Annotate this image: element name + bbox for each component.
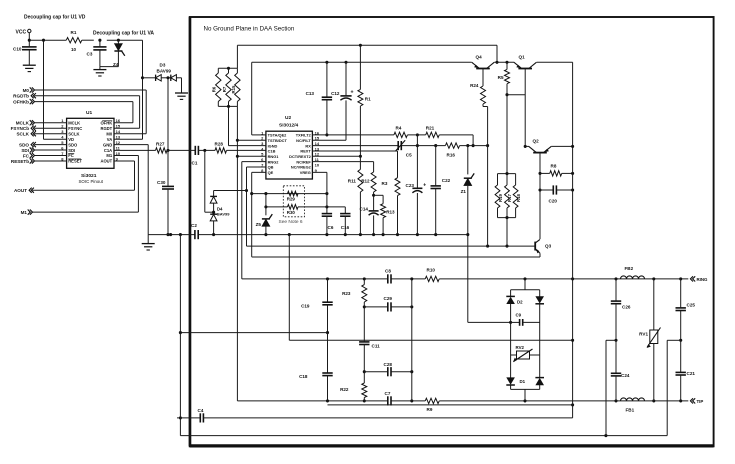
capacitor C25 [676,279,696,342]
wire Q3 base row [247,146,536,248]
wire RX row [312,144,489,147]
wire QB drop [245,167,266,246]
wire ground rail [148,233,468,236]
wire RGDTb to pin15 [114,96,140,129]
capacitor C18 [299,333,333,401]
wire R5 to Q1 base [505,69,526,148]
capacitor C3 [87,40,107,66]
wire VREG pin [312,171,327,173]
wire tap row [179,331,328,334]
svg-text:BAV99: BAV99 [217,211,230,216]
svg-text:C14: C14 [360,207,369,212]
svg-text:SCLK: SCLK [68,131,79,136]
svg-text:C7: C7 [385,391,391,396]
op-amp U1 Si3021 [61,110,121,184]
svg-text:C1A: C1A [104,148,112,153]
svg-text:VCC: VCC [16,29,27,35]
svg-text:R4: R4 [396,126,402,131]
capacitor C4 [177,408,573,423]
diode D2 [506,296,544,305]
svg-text:R11: R11 [348,179,357,184]
svg-text:MCLK: MCLK [68,121,80,126]
svg-text:RX: RX [305,143,311,148]
ground [175,78,188,100]
svg-text:C3: C3 [87,52,93,57]
svg-text:C1B: C1B [268,149,276,154]
svg-text:RNG1: RNG1 [268,154,280,159]
resistor R13 [374,195,395,234]
svg-text:R1: R1 [365,97,371,102]
svg-text:C19: C19 [301,304,310,309]
svg-text:16: 16 [116,118,121,123]
svg-text:See Note 6: See Note 6 [279,219,303,225]
wire AOUT to pin9 [114,161,135,190]
svg-text:Q2: Q2 [533,139,540,144]
wire QE drop [250,172,266,257]
wire VA to U1 pin13 [114,40,144,139]
svg-text:M0: M0 [106,131,112,136]
svg-text:NC/VREG2: NC/VREG2 [291,165,312,170]
svg-text:C10: C10 [13,47,22,52]
wire bridge left column [510,290,512,390]
resistor R23 [342,279,367,309]
svg-text:Q3: Q3 [545,244,552,249]
svg-text:R3: R3 [382,181,388,186]
capacitor C21 [676,340,696,401]
capacitor C5 [395,140,412,157]
wire D3 mid to C1A row [166,76,169,152]
capacitor C10 [13,40,37,65]
capacitor C26 [611,279,631,342]
node AOUT [14,188,135,194]
svg-text:C13: C13 [306,91,315,96]
transistor Q2 [525,139,572,153]
node FSYNCb [11,126,67,131]
svg-text:M1: M1 [21,210,28,215]
varistor RV2 [511,345,540,362]
resistor R3 [312,151,400,235]
resistor R22 [340,372,367,403]
svg-text:FC: FC [68,153,74,158]
wire C25 mid branch [667,340,681,435]
ferrite bead FB2 [621,266,645,279]
svg-text:QB: QB [268,165,274,170]
resistor R18 [513,174,521,218]
svg-text:SCLK: SCLK [16,132,29,137]
capacitor C29 [384,296,393,312]
ferrite bead FB1 [621,398,645,413]
svg-text:C8: C8 [385,268,391,273]
wire VCC rail [28,39,143,42]
svg-text:U2: U2 [285,115,291,121]
svg-text:FSYNC: FSYNC [68,126,82,131]
wire TX row [312,133,419,136]
wire QE node [252,192,329,195]
svg-text:D1: D1 [520,379,526,384]
svg-text:C20: C20 [549,198,558,203]
svg-text:C11: C11 [372,344,381,349]
svg-text:R16: R16 [447,153,456,158]
svg-text:10: 10 [315,162,320,167]
resistor R6 [212,73,221,102]
wire top rail A [237,44,498,64]
node MCLK [16,120,67,125]
svg-text:RV1: RV1 [639,332,648,337]
svg-text:C5: C5 [406,153,412,158]
transistor Q1 [514,54,536,68]
resistor R27 [114,141,168,153]
capacitor C14 [360,195,379,234]
svg-text:TSTB/DCT: TSTB/DCT [268,138,288,143]
resistor R21 [426,126,473,146]
node RESETb [11,158,67,163]
svg-text:REXT: REXT [300,149,311,154]
svg-text:M0: M0 [23,88,30,93]
wire M0 to pin14 [114,90,146,134]
svg-text:TIP: TIP [697,399,704,404]
capacitor C13 [306,62,333,136]
node M1 [21,210,139,216]
transistor Q3 [252,239,552,257]
svg-text:C18: C18 [299,374,308,379]
svg-text:R13: R13 [386,209,395,214]
resistor R4 [394,126,426,138]
node RING [690,276,708,282]
wire bottom tap row [180,434,667,437]
VCC terminal [16,29,31,40]
svg-text:RGDT: RGDT [100,126,112,131]
svg-text:RESET: RESET [68,159,82,164]
wire RNG2 drop [242,162,266,279]
node SDO [19,142,67,147]
label Decoupling cap for U1 VA [93,30,154,36]
wire row 405 [328,403,575,406]
svg-text:13: 13 [116,135,121,140]
svg-text:NC/REF: NC/REF [296,159,311,164]
svg-text:FB2: FB2 [625,266,634,271]
svg-text:Decoupling cap for U1 VD: Decoupling cap for U1 VD [24,15,86,21]
svg-text:GND: GND [103,142,112,147]
svg-text:D2: D2 [517,300,523,305]
wire TXA row [242,277,689,280]
wire C29-C28 right leg [410,279,413,403]
wire Q1 collector drop [571,62,574,418]
svg-text:C24: C24 [621,373,630,378]
svg-text:R22: R22 [340,387,349,392]
svg-text:C6: C6 [328,225,334,230]
node M0 [23,87,147,93]
svg-text:Decoupling cap for U1 VA: Decoupling cap for U1 VA [93,30,154,36]
wire M1 to pin10 [114,156,138,213]
ground [93,67,106,76]
svg-text:Si3012/4: Si3012/4 [279,123,299,129]
svg-text:R29: R29 [287,197,296,202]
svg-text:C12: C12 [331,91,340,96]
zener Z4 [100,40,125,67]
zener Z5 [256,194,273,235]
resistor R24 [470,69,488,146]
svg-text:SDI: SDI [68,148,75,153]
dotted box [283,186,304,217]
capacitor C6 [322,172,334,234]
svg-text:SDO: SDO [19,142,29,147]
wire trio2 bottom [498,216,516,248]
node TIP [690,398,703,404]
wire TIP rail [237,399,688,402]
resistor R9 [425,398,439,412]
svg-text:Z5: Z5 [256,222,262,227]
capacitor C22 [431,146,451,235]
svg-text:R15: R15 [231,85,236,93]
capacitor C16 [340,207,350,235]
svg-text:M1: M1 [106,153,112,158]
svg-text:R21: R21 [426,126,435,131]
svg-text:+: + [351,90,354,96]
svg-text:C23: C23 [406,183,415,188]
wire rail B to U2 pin1 [252,62,266,135]
capacitor C23 [406,135,427,235]
ground [142,235,155,250]
svg-text:SDI: SDI [21,148,29,153]
resistor R15 [231,68,240,106]
wire C1B tap to D4 mid [205,150,215,213]
svg-text:TXFILT2: TXFILT2 [296,133,312,138]
wire VD to VCC rail [44,40,67,139]
svg-text:U1: U1 [86,110,92,116]
label Decoupling cap for U1 VD [24,15,86,21]
capacitor C20 [540,185,574,203]
resistor R16 [445,143,459,158]
svg-text:DCT/REXT2: DCT/REXT2 [289,154,311,159]
svg-text:C21: C21 [687,371,696,376]
svg-text:R7: R7 [222,86,227,92]
svg-text:FSYNCb: FSYNCb [11,126,30,131]
wire GND pin to ground rail [114,145,148,235]
wire bridge right column [539,290,541,390]
svg-text:RV2: RV2 [516,345,525,350]
svg-text:C25: C25 [687,303,696,308]
svg-text:BAV99: BAV99 [157,68,172,73]
svg-text:FC: FC [23,153,30,158]
svg-text:+: + [423,182,426,188]
svg-text:R30: R30 [287,210,296,215]
zener Z1 [461,146,475,235]
svg-text:Q4: Q4 [476,54,483,59]
capacitor C1 [168,146,215,166]
svg-text:C29: C29 [384,296,393,301]
svg-text:QE: QE [268,170,274,175]
svg-text:C4: C4 [198,408,204,413]
svg-text:Z1: Z1 [461,189,467,194]
svg-text:NC/FILT: NC/FILT [296,138,311,143]
wire bridge top [511,279,540,290]
svg-text:AOUT: AOUT [14,188,27,193]
wire Q2 emitter [538,153,541,239]
svg-text:R8: R8 [551,163,557,168]
wire IGND riser [229,106,266,145]
resistor R11 [348,156,363,234]
capacitor C28 [384,362,393,376]
diode D1 [506,377,544,385]
svg-text:No Ground Plane in DAA Section: No Ground Plane in DAA Section [204,26,295,33]
svg-text:C22: C22 [442,178,451,183]
svg-text:R12: R12 [361,179,370,184]
resistor R5 [498,62,510,94]
svg-text:C30: C30 [157,180,166,185]
svg-text:D3: D3 [160,63,166,68]
op-amp U2 Si3012 [261,115,320,179]
svg-text:VA: VA [107,137,112,142]
wire D4 top row [214,191,247,197]
svg-text:R23: R23 [342,291,351,296]
node FC [23,153,67,158]
svg-text:RING: RING [697,277,709,282]
svg-text:SOIC Pinout: SOIC Pinout [79,179,104,184]
svg-text:VREG: VREG [300,170,311,175]
svg-text:R6: R6 [212,86,217,92]
wire jog to bottom tap [606,340,616,435]
svg-text:C28: C28 [384,362,393,367]
capacitor C24 [611,340,630,401]
svg-text:AOUT: AOUT [100,159,112,164]
resistor R2 [312,45,371,158]
node SDI [21,147,66,152]
svg-text:R1: R1 [71,30,77,35]
svg-text:OFHKb: OFHKb [13,100,29,105]
capacitor C11 [359,307,380,373]
label See Note 6 [279,219,303,225]
svg-text:R27: R27 [156,141,165,146]
wire trio2 top [498,95,516,175]
resistor R28 [215,141,266,153]
wire trio bottom [218,68,237,108]
DAA section box [190,17,714,446]
svg-text:14: 14 [116,129,121,134]
capacitor C2 [191,223,198,239]
wire C29 row [364,305,413,308]
capacitor C8 [385,268,391,283]
diode D3 BAV99 [143,63,182,81]
svg-text:C2: C2 [191,223,197,228]
wire OFHKb to pin16 [114,102,133,123]
svg-text:VD: VD [68,137,74,142]
svg-text:C26: C26 [622,304,631,309]
svg-text:RESETb: RESETb [11,159,29,164]
svg-text:OFHK: OFHK [100,121,112,126]
resistor R8 [540,163,574,176]
resistor R30 [264,205,345,215]
svg-text:Si3021: Si3021 [81,173,97,179]
svg-text:R28: R28 [215,141,224,146]
svg-text:MCLK: MCLK [16,121,30,126]
node RGDTb [13,93,139,99]
svg-text:IGND: IGND [268,143,278,148]
wire trio top [218,45,237,70]
resistor R7 [222,68,231,106]
svg-text:R9: R9 [427,407,433,412]
resistor R29 [287,191,298,201]
wire RNG1 drop [236,106,266,401]
svg-text:TSTA/QE2: TSTA/QE2 [268,133,288,138]
diode D4 BAV99 [210,196,230,234]
svg-text:FB1: FB1 [626,408,635,413]
capacitor C12 [312,62,353,140]
capacitor C30 [157,150,174,236]
svg-text:R5: R5 [498,75,504,80]
wire Z1 column to bridge [466,233,512,324]
node OFHKb [13,99,133,105]
ground [23,65,36,71]
resistor R10 [425,267,439,281]
capacitor C19 [301,279,333,334]
capacitor C9 [511,312,540,325]
transistor Q4 [472,54,494,68]
capacitor C7 [385,391,392,406]
resistor R17 [505,174,513,218]
resistor R19 [495,174,503,218]
wire collector rail B [252,61,573,64]
svg-text:Q1: Q1 [519,54,526,59]
resistor R1 [66,30,82,52]
wire C28 row [364,370,413,373]
svg-text:R24: R24 [470,83,479,88]
svg-text:C9: C9 [516,312,522,317]
label No Ground Plane [204,26,295,33]
node SCLK [16,131,66,136]
svg-text:R10: R10 [427,267,436,272]
svg-text:15: 15 [116,124,121,129]
svg-text:C1: C1 [192,161,198,166]
wire mid row [289,235,572,341]
svg-text:RGDTb: RGDTb [13,94,29,99]
varistor RV1 [639,279,660,401]
wire left tap leg [179,235,181,436]
svg-text:RNG2: RNG2 [268,159,280,164]
svg-text:10: 10 [71,47,77,52]
resistor R12 [312,162,376,197]
wire bridge bottom [511,389,540,401]
svg-text:SDO: SDO [68,142,78,147]
